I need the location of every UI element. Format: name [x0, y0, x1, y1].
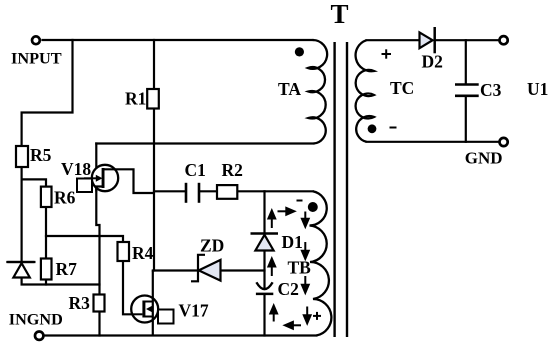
svg-text:D1: D1: [282, 232, 303, 252]
svg-text:INPUT: INPUT: [11, 49, 62, 68]
svg-text:C2: C2: [278, 279, 299, 299]
svg-text:V18: V18: [61, 159, 91, 179]
svg-text:R1: R1: [125, 89, 146, 109]
svg-text:T: T: [331, 0, 349, 29]
svg-text:V17: V17: [179, 301, 209, 321]
svg-text:R2: R2: [222, 160, 243, 180]
svg-text:R4: R4: [132, 243, 154, 263]
svg-text:TB: TB: [288, 258, 312, 278]
svg-text:C1: C1: [185, 160, 206, 180]
svg-text:TC: TC: [390, 78, 414, 98]
svg-text:R5: R5: [30, 145, 52, 165]
svg-text:ZD: ZD: [200, 236, 224, 256]
svg-text:U1: U1: [527, 79, 548, 99]
svg-text:C3: C3: [480, 80, 502, 100]
svg-text:R6: R6: [54, 188, 76, 208]
svg-text:INGND: INGND: [9, 311, 63, 329]
svg-text:D2: D2: [422, 52, 443, 72]
svg-text:TA: TA: [278, 79, 301, 99]
svg-text:GND: GND: [465, 149, 503, 168]
svg-text:R3: R3: [69, 293, 91, 313]
svg-text:R7: R7: [56, 259, 78, 279]
